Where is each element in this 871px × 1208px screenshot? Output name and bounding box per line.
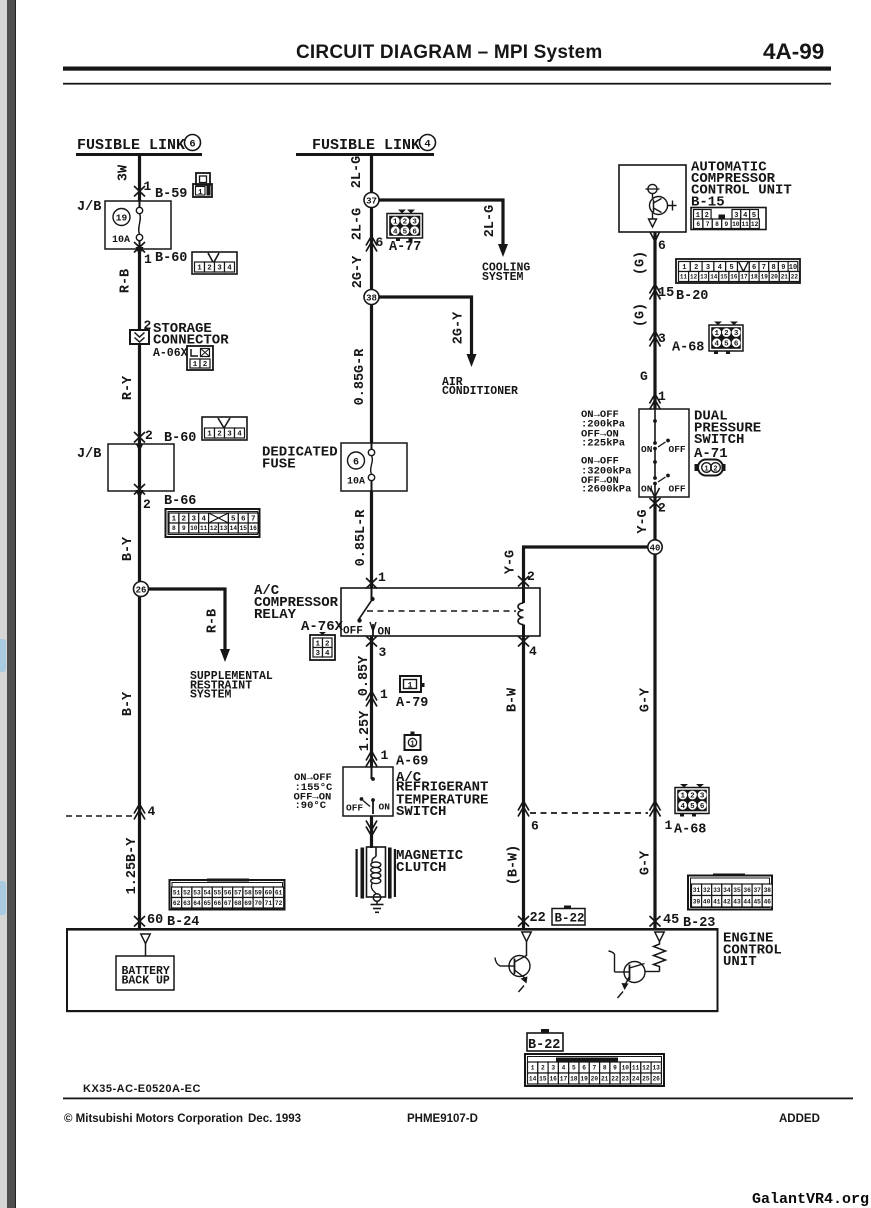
svg-text:1: 1	[144, 252, 152, 267]
svg-text:10: 10	[190, 525, 198, 532]
ECU input triangle B-24	[141, 934, 151, 944]
svg-text:Y-G: Y-G	[636, 509, 651, 533]
connector icon B-59	[196, 173, 210, 185]
temp switch contacts	[371, 767, 373, 779]
svg-text:26: 26	[652, 1076, 660, 1083]
svg-text:45: 45	[753, 899, 761, 906]
svg-text:3: 3	[658, 331, 666, 346]
svg-text:17: 17	[560, 1076, 568, 1083]
svg-text:15: 15	[720, 274, 728, 281]
branch wire to cooling system	[379, 198, 505, 201]
svg-text:13: 13	[220, 525, 228, 532]
svg-text:2: 2	[658, 501, 666, 516]
svg-text:66: 66	[214, 900, 222, 907]
svg-text:7: 7	[593, 1065, 597, 1072]
svg-text:1.25B-Y: 1.25B-Y	[125, 837, 140, 895]
svg-text::225kPa: :225kPa	[581, 438, 626, 450]
svg-text:34: 34	[723, 887, 731, 894]
svg-text:(B-W): (B-W)	[507, 845, 522, 886]
svg-text:2L-G: 2L-G	[483, 205, 498, 237]
svg-text:BACK UP: BACK UP	[122, 975, 170, 988]
svg-text:16: 16	[730, 274, 738, 281]
svg-text:J/B: J/B	[77, 447, 101, 462]
svg-text:45: 45	[663, 913, 679, 928]
arrow to supplemental restraint system	[220, 649, 230, 662]
ECU resistor	[654, 942, 666, 972]
svg-text:14: 14	[529, 1076, 537, 1083]
svg-text:70: 70	[254, 900, 262, 907]
svg-text:B-24: B-24	[167, 915, 199, 930]
footer rule	[63, 1098, 853, 1100]
svg-text:20: 20	[591, 1076, 599, 1083]
connector icon A-68 pins 1-6 upper	[709, 325, 743, 351]
ground symbol	[376, 902, 378, 905]
svg-text:1: 1	[704, 466, 708, 474]
svg-text:3: 3	[379, 645, 387, 660]
svg-text:4: 4	[562, 1065, 566, 1072]
svg-text:RELAY: RELAY	[254, 607, 297, 623]
svg-text:6: 6	[700, 803, 705, 811]
svg-text:ADDED: ADDED	[779, 1113, 820, 1125]
wire G-Y to ECU	[653, 554, 656, 928]
svg-text:37: 37	[366, 197, 377, 207]
svg-text:SYSTEM: SYSTEM	[482, 271, 524, 284]
connector icon B-60 second pins 1-4	[202, 417, 247, 440]
svg-text:1: 1	[408, 682, 413, 691]
junction B-23 pin 45	[650, 916, 661, 927]
svg-text:1.25Y: 1.25Y	[358, 710, 373, 751]
svg-text:13: 13	[700, 274, 708, 281]
wire (G) from control unit	[653, 232, 656, 409]
svg-text:A-68: A-68	[674, 823, 706, 838]
svg-text:B-59: B-59	[155, 187, 187, 202]
svg-text:1: 1	[665, 818, 673, 833]
boxed label B-22	[552, 909, 585, 926]
connector icon B-24 pins 51-72	[170, 880, 285, 910]
svg-text:10: 10	[732, 221, 740, 228]
svg-text:14: 14	[230, 525, 238, 532]
svg-text:54: 54	[203, 890, 211, 897]
connector icon A-77 pins 1-6	[387, 214, 423, 239]
svg-text:31: 31	[693, 887, 701, 894]
svg-text:SYSTEM: SYSTEM	[190, 689, 232, 702]
junction connector B-66 pin 2	[134, 484, 145, 495]
svg-text:A-68: A-68	[672, 341, 704, 356]
svg-text:62: 62	[173, 900, 181, 907]
svg-text:12: 12	[690, 274, 698, 281]
svg-text:14: 14	[710, 274, 718, 281]
svg-text:ON: ON	[379, 802, 391, 813]
svg-text:16: 16	[549, 1076, 557, 1083]
svg-text:9: 9	[182, 525, 186, 532]
svg-text:4: 4	[529, 644, 537, 659]
connector icon B-66 pins 1-16	[166, 509, 260, 537]
automatic compressor control unit box B-15	[619, 165, 686, 232]
svg-text:B-Y: B-Y	[121, 536, 136, 561]
svg-text:1: 1	[380, 687, 388, 702]
wire R-B below J/B	[138, 249, 141, 330]
svg-text:59: 59	[254, 890, 262, 897]
svg-text:3: 3	[217, 265, 222, 273]
svg-text:55: 55	[214, 890, 222, 897]
svg-text:B-22: B-22	[528, 1038, 560, 1053]
ECU input triangle B-23	[655, 932, 665, 942]
svg-text:CONDITIONER: CONDITIONER	[442, 385, 518, 398]
svg-text:60: 60	[265, 890, 273, 897]
branch wire to air conditioner	[379, 295, 473, 298]
svg-text:G-Y: G-Y	[639, 850, 654, 875]
svg-text:J/B: J/B	[77, 200, 101, 215]
svg-text:6: 6	[734, 341, 739, 349]
battery back up box	[145, 944, 147, 957]
wire R-Y	[138, 344, 141, 444]
svg-text:FUSIBLE LINK: FUSIBLE LINK	[77, 137, 185, 154]
svg-text:(G): (G)	[634, 303, 649, 327]
svg-text:72: 72	[275, 900, 283, 907]
fuse 19 10A symbol	[139, 201, 141, 207]
svg-text:12: 12	[642, 1065, 650, 1072]
svg-text:3: 3	[706, 264, 710, 272]
svg-text:3: 3	[412, 219, 417, 227]
svg-text:71: 71	[265, 900, 273, 907]
svg-text:63: 63	[183, 900, 191, 907]
svg-text:7: 7	[706, 221, 710, 228]
node 40	[648, 540, 662, 554]
svg-text:2: 2	[724, 330, 729, 338]
svg-text:21: 21	[781, 274, 789, 281]
svg-text:39: 39	[693, 899, 701, 906]
wire Y-G into relay pin 2	[522, 547, 525, 588]
relay switch contacts	[371, 588, 373, 599]
wire from node 40 to relay	[522, 545, 649, 548]
svg-text:6: 6	[189, 139, 195, 151]
svg-text:GalantVR4.org: GalantVR4.org	[752, 1191, 869, 1208]
svg-text:4: 4	[237, 431, 242, 439]
svg-text:21: 21	[601, 1076, 609, 1083]
svg-text:9: 9	[781, 264, 785, 272]
svg-text:18: 18	[750, 274, 758, 281]
connector icon A-76X pins 1-4	[310, 635, 335, 660]
blue sidebar tab 1	[0, 639, 6, 672]
svg-text:64: 64	[193, 900, 201, 907]
svg-text:4: 4	[718, 264, 722, 272]
wire 0.85Y	[370, 636, 373, 767]
svg-text:G: G	[640, 369, 648, 384]
relay pin 1 junction	[366, 578, 377, 589]
svg-text:4: 4	[325, 650, 330, 658]
svg-text:51: 51	[173, 890, 181, 897]
svg-text:4: 4	[680, 803, 685, 811]
ECU transistor 2	[645, 971, 660, 973]
connector icon A-69	[405, 735, 421, 750]
svg-text:2L-G: 2L-G	[350, 156, 365, 188]
svg-text:35: 35	[733, 887, 741, 894]
svg-text:60: 60	[147, 913, 163, 928]
svg-text:OFF: OFF	[343, 626, 363, 638]
svg-text:0.85L-R: 0.85L-R	[354, 509, 369, 567]
svg-text:4: 4	[227, 265, 232, 273]
node 37	[364, 193, 379, 208]
dashed line at pin 4	[66, 815, 134, 817]
svg-text:OFF: OFF	[346, 803, 363, 814]
svg-text:2: 2	[203, 361, 208, 369]
svg-text:38: 38	[366, 294, 377, 304]
svg-text:6: 6	[658, 238, 666, 253]
svg-text:11: 11	[741, 221, 749, 228]
dashed link at pin 6	[518, 807, 529, 817]
svg-text::2600kPa: :2600kPa	[581, 484, 632, 496]
junction connector B-60 pin 1	[134, 242, 145, 253]
node 38	[364, 290, 379, 305]
svg-text:B-20: B-20	[676, 289, 708, 304]
svg-text:© Mitsubishi Motors Corporatio: © Mitsubishi Motors Corporation	[64, 1113, 243, 1125]
svg-text:68: 68	[234, 900, 242, 907]
ECU input triangle B-22	[522, 932, 532, 942]
svg-text:65: 65	[203, 900, 211, 907]
svg-text:5: 5	[403, 228, 408, 236]
connector B-22 bracket label	[527, 1033, 563, 1051]
wire B-Y	[138, 491, 141, 582]
svg-text:69: 69	[244, 900, 252, 907]
svg-text:B-60: B-60	[155, 251, 187, 266]
svg-text::90°C: :90°C	[295, 800, 327, 812]
svg-text:10A: 10A	[347, 477, 365, 488]
svg-text:UNIT: UNIT	[723, 954, 757, 970]
svg-text:(G): (G)	[634, 251, 649, 275]
svg-text:1: 1	[207, 431, 212, 439]
svg-text:R-B: R-B	[119, 269, 134, 293]
svg-text:FUSE: FUSE	[262, 457, 296, 473]
svg-text:1: 1	[531, 1065, 535, 1072]
svg-text:1: 1	[144, 179, 152, 194]
junction pin 2 below dual pressure switch	[650, 498, 661, 509]
control unit internal symbol	[648, 184, 657, 193]
svg-text:3: 3	[227, 431, 232, 439]
svg-text:43: 43	[733, 899, 741, 906]
svg-text:16: 16	[249, 525, 257, 532]
svg-text:5: 5	[690, 803, 695, 811]
svg-text:19: 19	[116, 213, 128, 224]
svg-text:2: 2	[690, 793, 695, 801]
svg-text:6: 6	[752, 264, 756, 272]
svg-text:A-06X: A-06X	[153, 347, 188, 360]
svg-text:2: 2	[145, 428, 153, 443]
svg-text:0.85G-R: 0.85G-R	[353, 348, 368, 406]
svg-text:17: 17	[740, 274, 748, 281]
wire to magnetic clutch	[370, 816, 373, 848]
wire 2L-G to junction A-77	[370, 208, 373, 298]
connector icon A-06X pins 1-2	[187, 346, 213, 370]
svg-text:20: 20	[771, 274, 779, 281]
svg-text:1: 1	[381, 748, 389, 763]
svg-text:4: 4	[393, 228, 398, 236]
header thick rule	[63, 67, 831, 71]
svg-text:OFF: OFF	[669, 444, 686, 455]
dual pressure switch box	[639, 409, 689, 497]
svg-text:22: 22	[611, 1076, 619, 1083]
ECU transistor 1	[526, 942, 528, 957]
wire B-W	[522, 636, 525, 928]
svg-text:OFF: OFF	[669, 484, 686, 495]
svg-text:G-Y: G-Y	[639, 687, 654, 712]
svg-text:9: 9	[613, 1065, 617, 1072]
svg-text:42: 42	[723, 899, 731, 906]
svg-text:10: 10	[622, 1065, 630, 1072]
svg-text:24: 24	[632, 1076, 640, 1083]
connector icon B-22 pins 1-26	[525, 1054, 664, 1086]
svg-text:ON: ON	[378, 627, 391, 639]
svg-text:19: 19	[580, 1076, 588, 1083]
svg-text:R-B: R-B	[206, 609, 221, 633]
svg-text:52: 52	[183, 890, 191, 897]
svg-text:1: 1	[193, 361, 198, 369]
svg-text:R-Y: R-Y	[121, 375, 136, 400]
svg-text:22: 22	[791, 274, 799, 281]
svg-text:B-66: B-66	[164, 494, 196, 509]
svg-text:12: 12	[210, 525, 218, 532]
svg-text:40: 40	[703, 899, 711, 906]
svg-text:57: 57	[234, 890, 242, 897]
relay coil	[522, 588, 525, 603]
svg-text:SWITCH: SWITCH	[396, 804, 446, 820]
svg-text:40: 40	[650, 544, 661, 554]
junction A-69 pin 1	[366, 757, 377, 767]
svg-text:2: 2	[527, 569, 535, 584]
junction A-68 pin 3	[650, 337, 661, 347]
wire 2L-G from fusible link 4	[370, 156, 373, 193]
svg-text:1: 1	[198, 189, 203, 197]
svg-text:61: 61	[275, 890, 283, 897]
svg-text:CIRCUIT DIAGRAM – MPI System: CIRCUIT DIAGRAM – MPI System	[296, 42, 602, 63]
connector icon A-68 pins 1-6 lower	[675, 788, 709, 814]
connector icon B-15 pins 1-12	[691, 208, 766, 230]
svg-text:ON: ON	[641, 444, 653, 455]
relay internal dashed link	[367, 610, 516, 612]
svg-text:6: 6	[412, 228, 417, 236]
svg-text:1: 1	[378, 570, 386, 585]
svg-text:A-77: A-77	[389, 240, 421, 255]
svg-text:46: 46	[764, 899, 772, 906]
svg-text:4: 4	[714, 341, 719, 349]
svg-text:2: 2	[694, 264, 698, 272]
svg-text:15: 15	[658, 286, 674, 301]
relay pin 3 junction	[366, 636, 377, 647]
svg-text:15: 15	[539, 1076, 547, 1083]
svg-text:4: 4	[424, 139, 430, 151]
svg-text:10A: 10A	[112, 235, 130, 246]
svg-text:PHME9107-D: PHME9107-D	[407, 1113, 478, 1125]
svg-text:56: 56	[224, 890, 232, 897]
svg-text:KX35-AC-E0520A-EC: KX35-AC-E0520A-EC	[83, 1083, 201, 1095]
svg-text:Dec. 1993: Dec. 1993	[248, 1113, 301, 1125]
connector icon B-20 pins 1-22	[676, 259, 800, 283]
junction B-22 pin 22	[518, 916, 529, 927]
svg-text:3: 3	[316, 650, 321, 658]
svg-text:1: 1	[197, 265, 202, 273]
A/C refrigerant temperature switch box	[343, 767, 393, 816]
svg-text:10: 10	[789, 264, 797, 272]
svg-text:33: 33	[713, 887, 721, 894]
svg-text:2: 2	[217, 431, 222, 439]
svg-text:2: 2	[403, 219, 408, 227]
svg-text:2: 2	[713, 466, 717, 474]
junction connector B-59 pin 1	[134, 186, 145, 197]
svg-text:25: 25	[642, 1076, 650, 1083]
svg-text:FUSIBLE LINK: FUSIBLE LINK	[312, 137, 420, 154]
svg-text:B-22: B-22	[555, 912, 585, 926]
svg-text:6: 6	[696, 221, 700, 228]
svg-text:13: 13	[652, 1065, 660, 1072]
svg-text:11: 11	[200, 525, 208, 532]
svg-text:19: 19	[761, 274, 769, 281]
engine control unit box	[66, 928, 718, 931]
svg-text:67: 67	[224, 900, 232, 907]
svg-text:2L-G: 2L-G	[351, 208, 366, 240]
svg-text:37: 37	[753, 887, 761, 894]
svg-text:5: 5	[572, 1065, 576, 1072]
svg-text:3: 3	[734, 330, 739, 338]
svg-text:26: 26	[136, 586, 147, 596]
svg-text:B-W: B-W	[506, 687, 521, 712]
junction connector B-60 pin 2	[134, 432, 145, 443]
svg-text:3: 3	[700, 793, 705, 801]
wire 3W from fusible link 6	[138, 156, 141, 201]
svg-text:6: 6	[582, 1065, 586, 1072]
svg-text:9: 9	[725, 221, 729, 228]
svg-text:5: 5	[729, 264, 733, 272]
svg-text:A-79: A-79	[396, 696, 428, 711]
junction A-77 pin 6	[366, 242, 377, 252]
svg-text:8: 8	[603, 1065, 607, 1072]
wire 0.85L-R	[370, 491, 373, 588]
wire B-Y lower	[138, 597, 141, 929]
svg-text:A-69: A-69	[396, 755, 428, 770]
connector icon B-23 pins 31-46	[688, 876, 772, 910]
connector icon B-60 pins 1-4	[192, 252, 237, 274]
svg-text:18: 18	[570, 1076, 578, 1083]
svg-text:1: 1	[410, 741, 414, 749]
svg-text:22: 22	[530, 911, 546, 926]
svg-text:36: 36	[743, 887, 751, 894]
svg-text:3: 3	[551, 1065, 555, 1072]
svg-text:15: 15	[240, 525, 248, 532]
svg-text:58: 58	[244, 890, 252, 897]
svg-text:38: 38	[764, 887, 772, 894]
svg-text:3W: 3W	[117, 164, 132, 181]
svg-text:6: 6	[531, 819, 539, 834]
svg-text:6: 6	[376, 235, 384, 250]
magnetic clutch symbol	[356, 849, 358, 897]
svg-text:11: 11	[632, 1065, 640, 1072]
svg-text:0.85Y: 0.85Y	[357, 655, 372, 696]
svg-text:12: 12	[751, 221, 759, 228]
svg-text:2: 2	[143, 497, 151, 512]
svg-text:44: 44	[743, 899, 751, 906]
svg-text:6: 6	[353, 458, 359, 469]
junction B-24 pin 60	[134, 916, 145, 927]
scanner edge light strip	[0, 0, 7, 1208]
svg-text:2: 2	[207, 265, 212, 273]
svg-text:1: 1	[680, 793, 685, 801]
svg-text:1: 1	[393, 219, 398, 227]
svg-text:8: 8	[771, 264, 775, 272]
header thin rule	[63, 83, 831, 85]
svg-text:7: 7	[762, 264, 766, 272]
junction A-79 pin 1	[366, 697, 377, 707]
svg-text:Y-G: Y-G	[504, 550, 519, 574]
connector icon A-71 pins 1-2	[698, 460, 723, 476]
scanner dark edge bar	[7, 0, 16, 1208]
